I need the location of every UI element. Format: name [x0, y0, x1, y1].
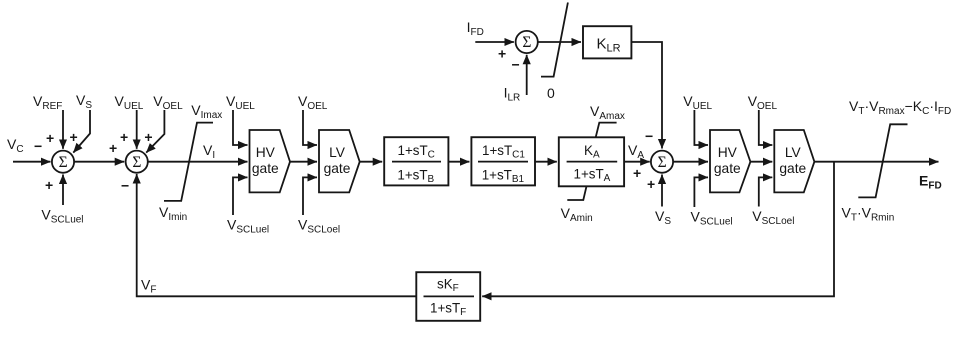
summing junction S3: [651, 151, 673, 173]
wire VSCLoel into LV gate 2: [759, 177, 773, 206]
wire S1 to S2: [74, 161, 124, 163]
wire S4 to KLR block: [538, 41, 581, 43]
svg-text:KLR: KLR: [597, 36, 621, 55]
wire VOEL into S2: [146, 110, 164, 153]
summing junction S4: [516, 31, 538, 53]
summing junction S1: [52, 151, 74, 173]
svg-text:VF: VF: [141, 277, 156, 296]
svg-text:VREF: VREF: [33, 93, 62, 112]
svg-text:VSCLoel: VSCLoel: [298, 217, 340, 236]
svg-text:−: −: [34, 138, 42, 154]
svg-text:0: 0: [547, 85, 555, 101]
svg-text:VA: VA: [628, 142, 644, 161]
svg-text:Σ: Σ: [522, 34, 531, 51]
svg-text:VOEL: VOEL: [153, 93, 183, 112]
wire ILR into S4: [526, 55, 528, 95]
svg-text:VS: VS: [76, 92, 92, 111]
svg-text:VImax: VImax: [191, 102, 222, 121]
svg-text:+: +: [45, 177, 53, 193]
svg-text:+: +: [647, 176, 655, 192]
svg-text:VSCLuel: VSCLuel: [227, 217, 269, 236]
wire KLR block to S3: [631, 42, 662, 149]
limiter symbol VImax/VImin: [164, 123, 213, 201]
wire KA block to S3: [625, 161, 650, 163]
limiter symbol VAmin: [567, 186, 586, 200]
wire HV gate 2 to LV gate 2: [750, 161, 772, 163]
svg-text:gate: gate: [714, 161, 741, 176]
wire VSCLuel into S1: [62, 175, 64, 206]
svg-text:VAmax: VAmax: [590, 103, 625, 122]
limiter symbol field current 0: [541, 3, 568, 77]
svg-text:−: −: [121, 177, 129, 193]
svg-text:VUEL: VUEL: [115, 93, 144, 112]
svg-text:HV: HV: [256, 145, 276, 160]
wire feedback to S2: [137, 174, 417, 296]
svg-text:+: +: [144, 129, 152, 145]
svg-text:VOEL: VOEL: [298, 93, 328, 112]
svg-text:1+sTC1: 1+sTC1: [482, 143, 525, 161]
limiter symbol VAmax: [596, 123, 617, 138]
wire Vc input: [13, 161, 51, 163]
wire VREF into S1: [62, 110, 64, 149]
svg-text:ILR: ILR: [504, 85, 521, 104]
wire TB block to TB1 block: [448, 161, 469, 163]
wire feedback branch down: [482, 162, 834, 297]
wire HV gate 1 to LV gate 1: [290, 161, 317, 163]
svg-text:1+sTB1: 1+sTB1: [482, 167, 525, 185]
svg-text:LV: LV: [329, 145, 346, 160]
svg-text:gate: gate: [779, 161, 806, 176]
svg-text:+: +: [498, 46, 506, 62]
svg-text:VS: VS: [655, 208, 671, 227]
wire S2 to HV gate 1: [148, 161, 248, 163]
wire LV gate 2 to EFD output: [814, 161, 938, 163]
svg-text:+: +: [120, 129, 128, 145]
svg-text:1+sTB: 1+sTB: [397, 167, 434, 185]
wire VS into S1: [73, 110, 90, 153]
limiter symbol VT VRmax: [858, 124, 907, 197]
wire VSCLuel into HV gate 2: [694, 177, 708, 207]
svg-text:Σ: Σ: [132, 154, 141, 171]
svg-text:VT·VRmin: VT·VRmin: [842, 205, 895, 224]
svg-text:VAmin: VAmin: [561, 205, 593, 224]
svg-text:VI: VI: [203, 142, 215, 161]
svg-text:VSCLuel: VSCLuel: [41, 207, 83, 226]
HV gate 1: [250, 130, 291, 192]
svg-text:LV: LV: [785, 145, 802, 160]
wire VSCLoel into LV gate 1: [303, 177, 317, 215]
svg-text:VOEL: VOEL: [748, 93, 778, 112]
LV gate 1: [319, 130, 360, 192]
svg-text:VC: VC: [7, 136, 24, 155]
svg-text:Σ: Σ: [59, 154, 68, 171]
svg-text:VT·VRmax−KC·IFD: VT·VRmax−KC·IFD: [849, 98, 951, 117]
svg-text:IFD: IFD: [467, 19, 484, 38]
svg-text:HV: HV: [718, 145, 738, 160]
svg-text:1+sTF: 1+sTF: [430, 300, 466, 318]
svg-text:1+sTA: 1+sTA: [574, 167, 611, 185]
svg-text:VSCLuel: VSCLuel: [691, 208, 733, 227]
wire VUEL into HV gate 2: [694, 110, 708, 145]
wire LV gate 1 to TB block: [360, 161, 383, 163]
svg-text:+: +: [70, 129, 78, 145]
svg-text:+: +: [633, 165, 641, 181]
svg-text:Σ: Σ: [658, 154, 667, 171]
svg-text:+: +: [109, 140, 117, 156]
svg-text:VImin: VImin: [159, 204, 187, 223]
block sKF/(1+sTF): [416, 272, 480, 321]
svg-text:−: −: [512, 57, 520, 73]
svg-text:VUEL: VUEL: [683, 93, 712, 112]
wire VSCLuel into HV gate 1: [233, 177, 248, 215]
LV gate 2: [774, 130, 814, 192]
block KA/(1+sTA): [559, 137, 624, 186]
wire VUEL into HV gate 1: [233, 110, 248, 145]
wire IFD input: [475, 41, 514, 43]
svg-text:1+sTC: 1+sTC: [398, 143, 435, 161]
svg-text:KA: KA: [584, 143, 600, 161]
block KLR: [583, 26, 631, 58]
wire S3 to HV gate 2: [673, 161, 708, 163]
wire VUEL into S2: [136, 110, 138, 149]
svg-text:gate: gate: [252, 161, 279, 176]
svg-text:+: +: [46, 130, 54, 146]
svg-text:VUEL: VUEL: [226, 93, 255, 112]
svg-text:sKF: sKF: [437, 277, 459, 295]
wire VS into S3: [661, 175, 663, 207]
svg-text:VSCLoel: VSCLoel: [752, 208, 794, 227]
svg-text:gate: gate: [324, 161, 351, 176]
wire VOEL into LV gate 1: [303, 110, 317, 145]
HV gate 2: [710, 130, 750, 192]
svg-text:−: −: [645, 128, 653, 144]
summing junction S2: [126, 151, 148, 173]
wire VOEL into LV gate 2: [759, 110, 773, 145]
wire TB1 block to KA block: [535, 161, 557, 163]
svg-text:EFD: EFD: [919, 173, 942, 192]
block (1+sTC1)/(1+sTB1): [471, 137, 535, 185]
block (1+sTC)/(1+sTB): [384, 137, 448, 185]
